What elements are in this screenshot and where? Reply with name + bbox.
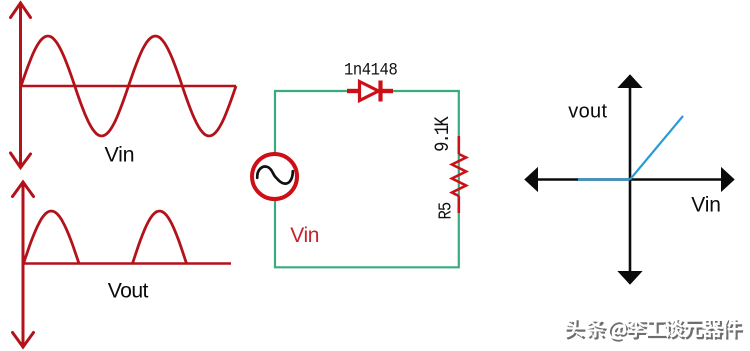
diode D1 triangle: [360, 82, 379, 101]
diode D1 cathode bar: [378, 81, 382, 102]
svg-text:Vout: Vout: [108, 279, 149, 302]
AC source V1 circle: [252, 154, 297, 199]
Vout waveform vertical axis double arrow: [13, 182, 34, 347]
Vin waveform vertical axis double arrow: [11, 3, 31, 168]
svg-text:Vin: Vin: [105, 143, 135, 167]
Vin waveform horizontal axis: [21, 85, 237, 88]
transfer curve (blue): diode conduction slope: [630, 116, 683, 180]
Vout waveform horizontal axis: [23, 262, 231, 265]
Vout rectified hump 2: [133, 211, 187, 263]
svg-text:1n4148: 1n4148: [344, 60, 397, 80]
svg-text:9.1K: 9.1K: [431, 116, 455, 152]
wire circuit loop (left, top, right, bottom): [275, 91, 459, 267]
svg-text:vout: vout: [568, 101, 607, 123]
diode D1 1n4148: anode lead: [347, 89, 359, 93]
resistor R5 bottom lead: [457, 196, 460, 213]
diode D1 cathode lead: [381, 89, 394, 93]
watermark 头条 @李工谈元器件: [564, 318, 743, 342]
svg-text:Vin: Vin: [290, 224, 319, 247]
transfer graph horizontal axis: [525, 168, 734, 191]
resistor R5 top lead: [457, 136, 460, 154]
AC source sine symbol: [257, 167, 293, 184]
svg-text:R5: R5: [436, 202, 457, 219]
Vin sine wave: [21, 36, 236, 136]
svg-text:Vin: Vin: [691, 194, 720, 217]
Vout rectified hump 1: [24, 211, 80, 264]
resistor R5 zigzag: [452, 154, 466, 196]
transfer graph vertical axis: [619, 75, 642, 284]
transfer curve (blue): flat negative region: [578, 178, 630, 180]
